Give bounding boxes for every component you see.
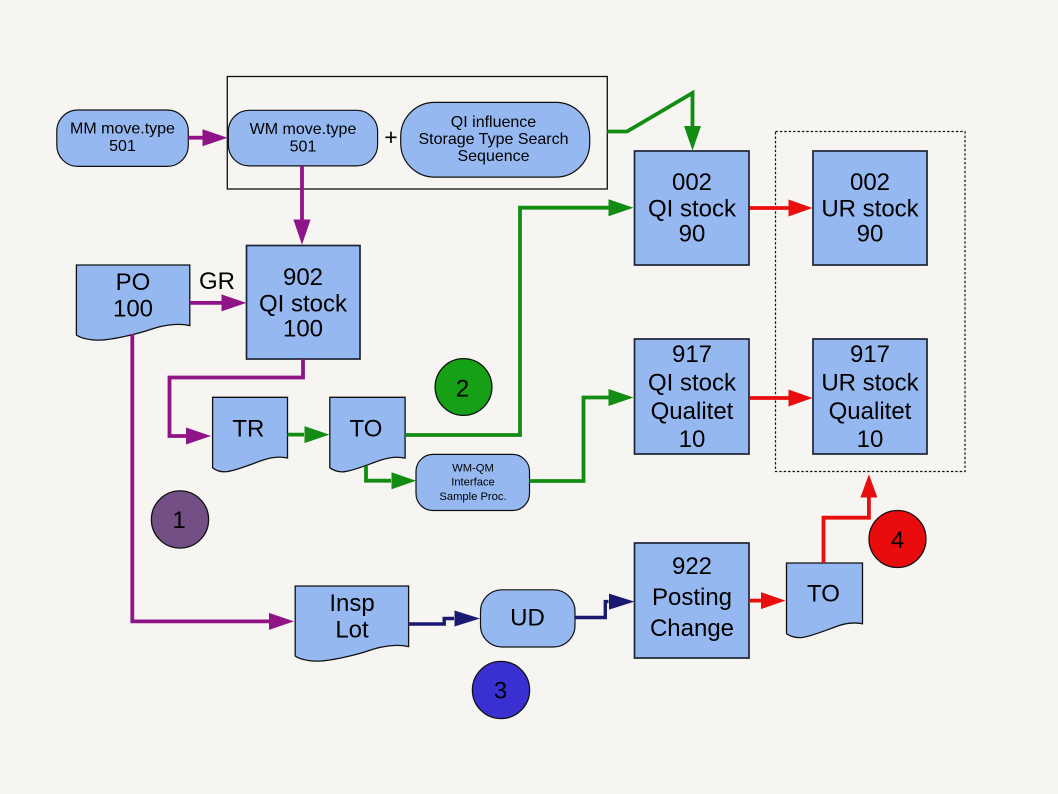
node WM move.type 501 [228, 110, 377, 166]
svg-text:Sample Proc.: Sample Proc. [439, 491, 506, 503]
svg-text:1: 1 [172, 507, 185, 534]
svg-text:MM move.type: MM move.type [70, 121, 175, 138]
wire 902 to TR (purple elbow) [170, 359, 304, 445]
node UD [481, 590, 576, 647]
svg-text:100: 100 [113, 295, 153, 322]
node TR (document) [213, 397, 288, 471]
svg-text:UR stock: UR stock [821, 196, 919, 223]
node WM-QM Interface Sample Proc. [416, 454, 530, 510]
svg-text:QI stock: QI stock [259, 291, 348, 318]
arrow TR to TO (green) [288, 426, 330, 443]
wire group-rect to 002 QI stock (green elbow) [607, 93, 701, 151]
svg-text:Interface: Interface [451, 477, 495, 489]
node 922 Posting Change [635, 543, 750, 658]
wire Insp Lot to UD (navy elbow) [409, 611, 480, 627]
svg-text:002: 002 [672, 169, 712, 196]
dotted region rectangle [776, 132, 966, 472]
svg-text:917: 917 [672, 341, 712, 368]
svg-text:100: 100 [283, 316, 323, 343]
marker circle 3 (blue) [472, 661, 529, 718]
svg-text:QI influence: QI influence [451, 114, 536, 131]
svg-text:WM move.type: WM move.type [250, 121, 357, 138]
svg-text:Change: Change [650, 615, 734, 642]
node TO (document) [330, 397, 405, 472]
node TO lower (document) [787, 563, 863, 638]
node MM move.type 501 [57, 110, 189, 166]
svg-text:4: 4 [891, 527, 904, 554]
svg-text:917: 917 [850, 341, 890, 368]
node 917 QI stock Qualitet 10 [635, 339, 750, 454]
group rectangle frame [227, 77, 607, 190]
svg-text:QI stock: QI stock [648, 196, 737, 223]
svg-text:Storage Type Search: Storage Type Search [418, 131, 568, 148]
arrow PO to 902 (purple, GR) [190, 294, 247, 311]
svg-text:TO: TO [807, 581, 840, 608]
svg-text:GR: GR [199, 268, 235, 295]
arrow MM to WM (purple) [188, 129, 227, 146]
svg-text:902: 902 [283, 264, 323, 291]
arrow 917 QI to 917 UR (red) [750, 390, 813, 407]
node 917 UR stock Qualitet 10 [813, 339, 927, 454]
svg-text:2: 2 [456, 375, 469, 402]
marker circle 4 (red) [869, 511, 926, 568]
node PO 100 (document) [76, 265, 189, 340]
svg-text:Sequence: Sequence [457, 148, 529, 165]
svg-text:Insp: Insp [329, 590, 374, 617]
svg-text:002: 002 [850, 169, 890, 196]
svg-text:501: 501 [290, 139, 317, 156]
svg-text:Lot: Lot [335, 617, 369, 644]
svg-text:3: 3 [494, 678, 507, 705]
svg-text:TR: TR [232, 415, 264, 442]
node Insp Lot (document) [295, 586, 408, 661]
node 002 QI stock 90 [635, 151, 750, 265]
svg-text:922: 922 [672, 553, 712, 580]
svg-text:TO: TO [350, 415, 383, 442]
svg-text:90: 90 [679, 221, 706, 248]
svg-text:Qualitet: Qualitet [651, 398, 734, 425]
marker circle 1 (purple) [151, 491, 208, 548]
svg-text:+: + [384, 124, 397, 150]
svg-text:Qualitet: Qualitet [829, 398, 912, 425]
svg-text:501: 501 [109, 138, 136, 155]
svg-text:10: 10 [857, 426, 884, 453]
marker circle 2 (green) [435, 359, 492, 416]
wire TO to 917 UR stock (red elbow) [824, 474, 878, 563]
svg-text:QI stock: QI stock [648, 370, 737, 397]
svg-text:90: 90 [857, 221, 884, 248]
arrow WM to 902 (purple vertical) [293, 166, 310, 245]
svg-text:PO: PO [116, 269, 151, 296]
node QI influence Storage Type Search Sequence [401, 102, 590, 177]
svg-text:WM-QM: WM-QM [452, 463, 494, 475]
arrow 922 to TO (red) [749, 592, 786, 609]
node 902 QI stock 100 [247, 246, 361, 360]
wire TO to WM-QM interface (green elbow) [366, 466, 416, 489]
wire WM-QM interface to 917 QI stock (green elbow) [530, 389, 634, 481]
wire UD to 922 (navy elbow) [575, 594, 634, 618]
node 002 UR stock 90 [813, 151, 927, 265]
wire TO to 002 QI stock (green elbow) [405, 199, 633, 435]
svg-text:10: 10 [679, 426, 706, 453]
svg-text:UR stock: UR stock [821, 370, 919, 397]
svg-text:Posting: Posting [652, 584, 732, 611]
wire PO to Insp Lot (purple elbow) [132, 334, 294, 630]
arrow 002 QI to 002 UR (red) [750, 200, 813, 217]
svg-text:UD: UD [510, 605, 545, 632]
